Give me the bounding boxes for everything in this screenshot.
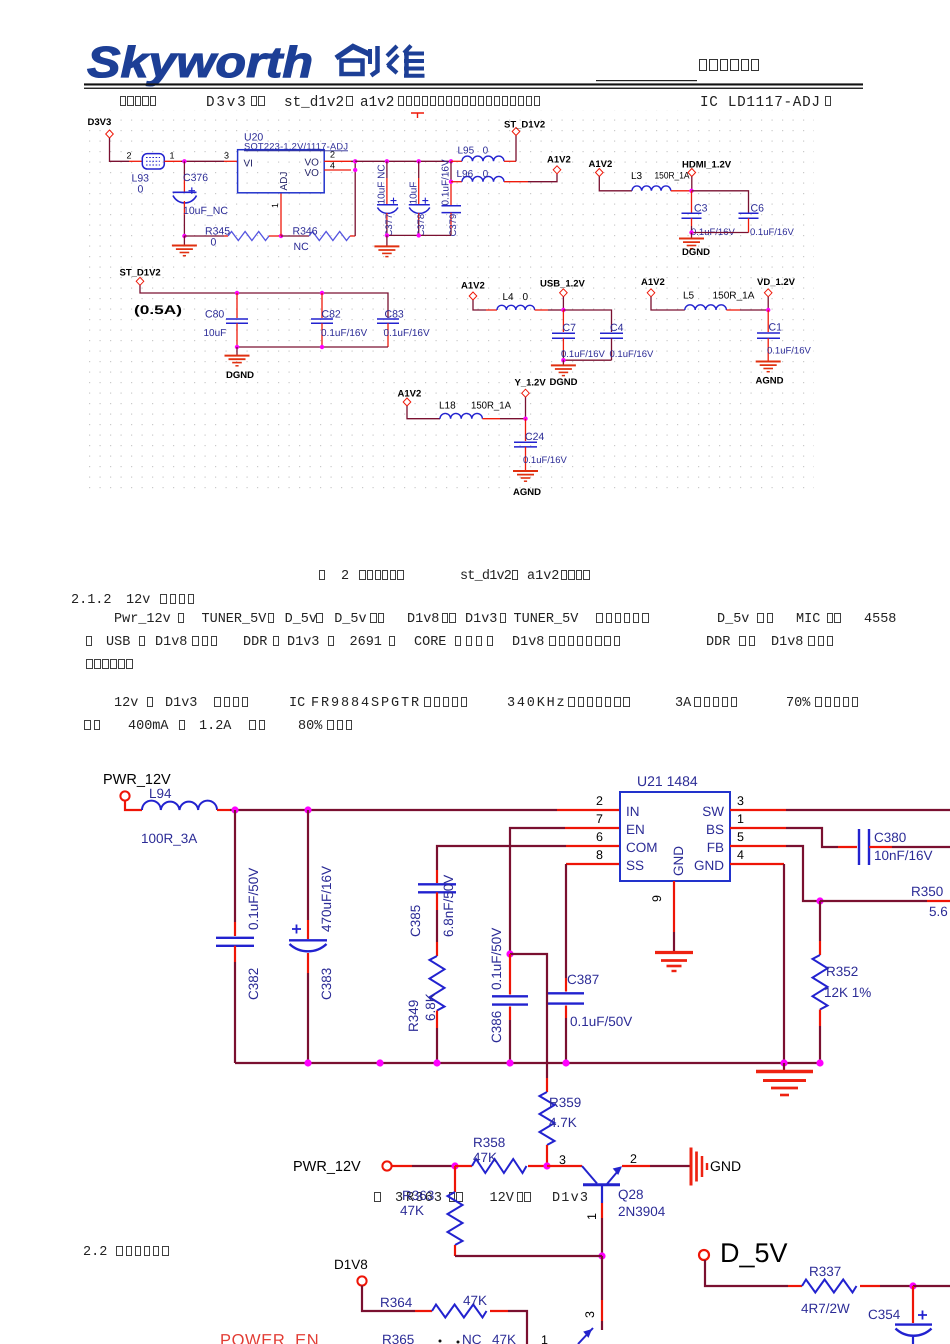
node ST_D1V2 top (504, 120, 545, 162)
wire to L18 (407, 406, 440, 419)
svg-text:1: 1 (541, 1333, 548, 1344)
schematic grid dots (85, 110, 814, 497)
resistor R363 47K (400, 1166, 463, 1256)
resistor R346 NC (281, 226, 355, 254)
ground row1 (386, 235, 388, 246)
ground AGND y (513, 471, 538, 481)
inductor L4 0 (486, 292, 548, 310)
header double rule (84, 83, 863, 85)
pin9 ground lead (673, 881, 675, 932)
node VD_1.2V (757, 277, 796, 310)
svg-text:1: 1 (585, 1213, 599, 1220)
resistor R349 6.8K (406, 942, 445, 1063)
svg-text:GND: GND (671, 846, 686, 876)
paragraph 2 line 2 (83, 720, 101, 735)
capacitor C3 (682, 191, 736, 238)
inductor L5 150R_1A (683, 291, 755, 311)
svg-text:6: 6 (596, 830, 603, 844)
paragraph 1 line 3 (86, 659, 134, 674)
bottom common rail (235, 1062, 820, 1064)
svg-text:PWR_12V: PWR_12V (293, 1159, 361, 1175)
wire (786, 828, 838, 847)
svg-text:EN: EN (626, 822, 645, 837)
output rail to L95 (355, 160, 451, 162)
junction (235, 345, 239, 349)
resistor R345 0 (184, 226, 281, 249)
svg-text:1: 1 (737, 812, 744, 826)
svg-text:R352: R352 (826, 964, 858, 979)
transistor Q29 (clipped) (541, 1311, 597, 1344)
node D_5V (699, 1238, 788, 1268)
capacitor C385 6.8nF/50V (408, 870, 456, 942)
wire D_5V to R337 (705, 1260, 788, 1286)
capacitor C382 0.1uF/50V (216, 810, 261, 1063)
svg-text:C380: C380 (874, 830, 906, 845)
svg-text:0.1uF/50V: 0.1uF/50V (570, 1014, 632, 1029)
svg-text:470uF/16V: 470uF/16V (319, 866, 334, 932)
junction (523, 417, 527, 421)
junction (543, 1162, 550, 1169)
BS wire to C380 (730, 827, 786, 829)
caption figure 3 (under schematic 2) (374, 1192, 382, 1207)
svg-text:6.8K: 6.8K (423, 993, 438, 1021)
capacitor C4 (600, 322, 654, 360)
svg-text:6.8nF/50V: 6.8nF/50V (441, 875, 456, 937)
pin lead (224, 160, 238, 162)
svg-text:5.6: 5.6 (929, 904, 948, 919)
svg-text:SW: SW (702, 804, 724, 819)
svg-text:NC: NC (462, 1332, 482, 1344)
svg-text:5: 5 (737, 830, 744, 844)
paragraph 1 line 1 (114, 613, 171, 627)
node HDMI_1.2V (682, 160, 732, 191)
wire EN node to R359 drop (510, 954, 547, 1078)
capacitor C24 (514, 419, 567, 471)
junction (385, 233, 389, 237)
svg-text:0.1uF/50V: 0.1uF/50V (489, 928, 504, 990)
junction (433, 1059, 440, 1066)
resistor R358 47K (455, 1135, 547, 1173)
svg-text:0.1uF/50V: 0.1uF/50V (246, 868, 261, 930)
capacitor C386 0.1uF/50V (489, 928, 528, 1063)
wire L96 to A1V2 (528, 174, 557, 182)
ground (172, 246, 197, 256)
junction (909, 1282, 916, 1289)
node Y_1.2V (515, 378, 547, 419)
junction (561, 308, 565, 312)
svg-text:D1V8: D1V8 (334, 1257, 368, 1272)
wire USB node to C4 (563, 310, 611, 332)
svg-text:R349: R349 (406, 1000, 421, 1032)
svg-text:C387: C387 (567, 972, 599, 987)
junction (304, 806, 311, 813)
junction ADJ node (279, 234, 283, 238)
svg-text:47K: 47K (463, 1293, 487, 1308)
svg-text:47K: 47K (492, 1332, 516, 1344)
svg-text:C383: C383 (319, 968, 334, 1000)
capacitor C7 (552, 310, 605, 360)
resistor R350 5.6 (clipped) (911, 884, 948, 919)
junction (353, 159, 357, 163)
body line 1 (119, 96, 157, 111)
svg-text:C354: C354 (868, 1307, 901, 1322)
IC U21 FR9884 (620, 773, 730, 881)
collector wire down (601, 1203, 603, 1218)
junction (235, 291, 239, 295)
SVG1: LD1117 regulator page schematic (0, 0, 950, 560)
junction (561, 358, 565, 362)
ground under U21 (655, 953, 693, 972)
capacitor C383 470uF/16V (289, 810, 334, 1063)
wire to L4 (473, 300, 486, 310)
svg-text:GND: GND (694, 858, 724, 873)
wire U20 VO pin4 (324, 169, 351, 171)
svg-text:4.7K: 4.7K (549, 1115, 577, 1130)
svg-text:4: 4 (737, 848, 744, 862)
junction (780, 1059, 787, 1066)
wire (548, 309, 563, 311)
capacitor C82 (311, 293, 367, 347)
base lead (547, 1165, 582, 1167)
capacitor C80 10uF (204, 293, 249, 347)
svg-text:2N3904: 2N3904 (618, 1204, 666, 1219)
hdmi ground rail (692, 232, 749, 234)
junction (766, 308, 770, 312)
resistor R365 NC 47K (clipped labels) (382, 1332, 516, 1344)
row2 bottom rail (237, 346, 388, 348)
ground DGND hdmi (691, 233, 693, 239)
svg-text:IN: IN (626, 804, 640, 819)
resistor R364 47K (380, 1293, 527, 1344)
wire (510, 828, 565, 954)
12V input rail (230, 809, 557, 811)
transistor Q28 2N3904 (582, 1166, 666, 1219)
ground under C376 (183, 236, 185, 246)
SW output wire (730, 809, 786, 811)
wire A1V2 to L3 (599, 177, 632, 191)
lead into U21 IN (557, 809, 620, 811)
header title tofu boxes (698, 58, 760, 76)
svg-text:R365: R365 (382, 1332, 414, 1344)
svg-text:3: 3 (559, 1153, 566, 1167)
inductor L18 150R_1A (439, 401, 511, 419)
node A1V2 out (547, 155, 571, 174)
svg-text:R363: R363 (402, 1188, 434, 1203)
svg-text:R350: R350 (911, 884, 943, 899)
ground AGND vd (756, 362, 781, 372)
wire D1V8 to R364 (362, 1286, 415, 1311)
junction (689, 189, 693, 193)
FB wire to R350 (820, 900, 927, 902)
node A1V2 y (398, 389, 422, 407)
wire (913, 1285, 950, 1287)
wire (783, 864, 785, 1063)
capacitor C377 10uF NC (377, 159, 399, 236)
svg-text:10nF/16V: 10nF/16V (874, 848, 933, 863)
wire (786, 846, 820, 901)
node A1V2 hdmi (589, 159, 613, 177)
logo CJK char chuang (336, 46, 378, 76)
wire (500, 418, 526, 420)
svg-text:4R7/2W: 4R7/2W (801, 1301, 850, 1316)
wire D3V3 to L93 (110, 138, 130, 161)
node PWR_12V top (103, 772, 171, 801)
node D3V3 (88, 117, 114, 138)
clipped power symbol at top (411, 113, 424, 118)
junction (598, 1252, 605, 1259)
junction (451, 1162, 458, 1169)
svg-text:12K 1%: 12K 1% (824, 985, 871, 1000)
svg-text:GND: GND (710, 1158, 741, 1174)
capacitor C387 0.1uF/50V (548, 972, 632, 1063)
svg-text:FB: FB (707, 840, 724, 855)
svg-text:U21 1484: U21 1484 (637, 773, 698, 789)
svg-text:R337: R337 (809, 1264, 841, 1279)
wire R363 to collector node (455, 1255, 602, 1257)
wire (673, 932, 675, 951)
ground DGND row2 (236, 347, 238, 356)
logo CJK char wei (387, 46, 425, 77)
svg-text:8: 8 (596, 848, 603, 862)
row2 top rail (140, 285, 388, 318)
junction C376 tap (182, 159, 186, 163)
regulator U20 SOT223 (238, 132, 348, 193)
pin lead (788, 1285, 802, 1287)
resistor R352 12K 1% (813, 901, 872, 1063)
svg-text:3: 3 (737, 794, 744, 808)
capacitor C380 10nF/16V (859, 829, 950, 865)
svg-text:7: 7 (596, 812, 603, 826)
paragraph 1 line 2 (86, 636, 94, 651)
capacitor C83 (377, 309, 430, 348)
ground DGND usb (562, 360, 564, 365)
svg-text:R358: R358 (473, 1135, 505, 1150)
emitter wire to GND (622, 1165, 650, 1167)
junction (689, 230, 693, 234)
FB wire (730, 845, 786, 847)
heading 2.1.2 (71, 594, 112, 608)
junction (816, 897, 823, 904)
junction (506, 1059, 513, 1066)
svg-text:C382: C382 (246, 968, 261, 1000)
pin lead (601, 1300, 603, 1321)
svg-text:D_5V: D_5V (720, 1238, 788, 1268)
wire to L5 (651, 297, 685, 310)
svg-text:47K: 47K (400, 1203, 424, 1218)
usb bottom rail (563, 359, 611, 361)
heading 2.2 (83, 1246, 107, 1260)
junction (304, 1059, 311, 1066)
ground (225, 356, 250, 366)
wire (650, 1165, 690, 1167)
svg-text:9: 9 (650, 895, 664, 902)
junction (562, 1059, 569, 1066)
bottom rail row1 (387, 234, 451, 236)
wire to C6 (692, 191, 749, 213)
inductor L94 100R_3A (141, 786, 230, 846)
junction R345 tap (182, 234, 186, 238)
junction (353, 168, 357, 172)
wire (565, 864, 567, 978)
capacitor C379 0.1uF/16V (441, 159, 461, 236)
svg-text:POWER_EN: POWER_EN (220, 1332, 319, 1344)
wire (740, 309, 768, 311)
svg-text:C386: C386 (489, 1011, 504, 1043)
junction (376, 1059, 383, 1066)
GND pin4 wire (730, 863, 784, 865)
svg-text:COM: COM (626, 840, 658, 855)
ground (551, 365, 576, 375)
EN node junction (506, 950, 513, 957)
junction (231, 806, 238, 813)
wire U20 VO pin2 (324, 160, 351, 162)
paragraph 2 line 1 (114, 697, 138, 711)
svg-text:2: 2 (630, 1152, 637, 1166)
inductor L3 150R_1A (631, 171, 692, 191)
node D1V8 (334, 1257, 368, 1286)
svg-text:Q28: Q28 (618, 1187, 644, 1202)
ground (679, 239, 704, 249)
wire (412, 1165, 455, 1167)
svg-text:47K: 47K (473, 1150, 497, 1165)
wire (601, 1321, 603, 1330)
ferrite bead L93 (129, 154, 181, 196)
wire node to U20 VI (181, 160, 224, 162)
svg-text:R364: R364 (380, 1295, 413, 1310)
svg-text:L94: L94 (149, 786, 172, 801)
svg-text:SS: SS (626, 858, 644, 873)
wire pin to L94 (125, 801, 142, 810)
wire (601, 1218, 603, 1256)
EN wire from U21 (565, 827, 620, 829)
svg-text:3: 3 (583, 1311, 597, 1318)
header rule line (84, 88, 863, 89)
inductor L95 0 (451, 146, 516, 162)
caption figure 2 (318, 570, 326, 585)
pin lead (415, 1310, 432, 1312)
wire (437, 846, 566, 870)
svg-text:R359: R359 (549, 1095, 581, 1110)
node PWR_12V bottom (293, 1159, 392, 1175)
vertical tie pin2/pin4 to R346 (351, 161, 355, 236)
ground GND bars (691, 1148, 707, 1186)
SS wire from U21 (566, 863, 620, 865)
wire (601, 1256, 603, 1300)
junction (417, 233, 421, 237)
svg-text:BS: BS (706, 822, 724, 837)
ground on bottom rail (783, 1063, 785, 1070)
svg-text:100R_3A: 100R_3A (141, 831, 197, 846)
resistor R359 4.7K (540, 1078, 582, 1166)
node A1V2 vd (641, 277, 665, 297)
junction (816, 1059, 823, 1066)
pin lead (927, 900, 950, 902)
node ST_D1V2 row2 (120, 268, 161, 286)
ground (374, 246, 399, 256)
junction (320, 345, 324, 349)
junction (320, 291, 324, 295)
capacitor C1 (757, 310, 811, 362)
wire (786, 809, 950, 811)
header blank underline (596, 80, 697, 81)
wire to R358 (392, 1165, 412, 1167)
inductor L96 0 (449, 169, 528, 184)
node A1V2 usb (461, 281, 485, 301)
resistor R337 4R7/2W (801, 1264, 913, 1316)
capacitor C354 (clipped) (868, 1286, 932, 1344)
COM wire to C385 (566, 845, 620, 847)
capacitor C378 10uF (408, 159, 430, 236)
capacitor C6 (739, 202, 795, 238)
node USB_1.2V (540, 279, 586, 311)
svg-text:C385: C385 (408, 905, 423, 937)
U20 ADJ pin lead (280, 193, 282, 236)
svg-text:2: 2 (596, 794, 603, 808)
pin lead (838, 846, 857, 848)
capacitor C376 10uF_NC (173, 161, 229, 236)
